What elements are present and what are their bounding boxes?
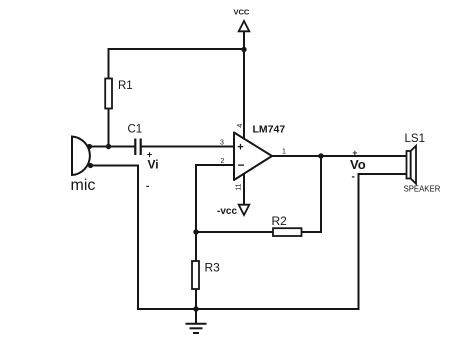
- svg-text:11: 11: [236, 183, 243, 190]
- wire VCC line down to op-amp pin 4: [243, 31, 245, 138]
- svg-text:SPEAKER: SPEAKER: [404, 185, 441, 194]
- svg-text:R2: R2: [272, 214, 288, 228]
- node ground rail junction: [193, 306, 198, 311]
- wire op-amp pin 1 output to speaker +: [272, 155, 407, 157]
- wire op-amp pin 2 horizontal: [196, 164, 234, 166]
- wire mic+ to C1 left plate: [89, 146, 135, 148]
- op-amp U1 LM747: [234, 133, 272, 181]
- svg-text:VCC: VCC: [234, 8, 250, 17]
- wire C1 right plate to op-amp pin 3: [142, 146, 234, 148]
- wire R3 bottom lead to ground rail: [195, 289, 197, 309]
- svg-text:-: -: [352, 172, 355, 183]
- svg-text:Vo: Vo: [350, 157, 366, 172]
- power VCC symbol: [239, 21, 250, 31]
- node A input junction: [106, 144, 111, 149]
- svg-text:C1: C1: [128, 124, 143, 136]
- node feedback junction: [193, 229, 198, 234]
- wire R1 top lead: [108, 49, 110, 79]
- wire mic- down to bottom rail: [91, 166, 139, 310]
- svg-text:2: 2: [221, 158, 225, 165]
- svg-text:1: 1: [282, 149, 286, 156]
- wire R2 right to corner: [302, 231, 322, 233]
- wire op-amp pin 11 down to -vcc arrow: [243, 174, 245, 205]
- wire R3 top lead: [195, 232, 197, 261]
- node mic - terminal: [88, 163, 93, 168]
- resistor R2: [273, 228, 302, 236]
- svg-text:LM747: LM747: [253, 123, 286, 135]
- wire bottom rail: [138, 308, 359, 310]
- resistor R1: [105, 79, 112, 109]
- microphone MIC: [72, 137, 90, 176]
- wire top rail from R1 to VCC node: [109, 48, 245, 50]
- svg-text:+: +: [237, 142, 243, 154]
- wire ground stub: [195, 309, 197, 324]
- svg-text:Vi: Vi: [148, 158, 159, 172]
- wire R1 bottom lead to input node: [108, 108, 110, 147]
- speaker LS1: [407, 146, 417, 184]
- resistor R3: [192, 261, 199, 289]
- svg-text:LS1: LS1: [405, 133, 425, 145]
- svg-text:-vcc: -vcc: [217, 206, 237, 217]
- wire speaker- return down to bottom rail: [359, 174, 407, 309]
- wire R2 corner up to output node: [320, 156, 322, 232]
- svg-text:R3: R3: [205, 261, 221, 275]
- node output junction: [318, 153, 323, 158]
- svg-text:3: 3: [220, 140, 224, 147]
- svg-text:-: -: [146, 181, 149, 192]
- node mic + terminal: [87, 144, 92, 149]
- node VCC rail junction: [241, 47, 246, 52]
- capacitor C1: [135, 139, 140, 156]
- svg-text:R1: R1: [118, 80, 133, 92]
- power -VCC symbol: [239, 205, 250, 215]
- ground: [186, 324, 207, 333]
- svg-text:4: 4: [235, 124, 244, 128]
- wire feedback node to R2 left: [196, 231, 273, 233]
- wire pin 2 down to feedback node: [195, 165, 197, 232]
- svg-text:−: −: [238, 158, 245, 172]
- svg-text:mic: mic: [71, 177, 96, 194]
